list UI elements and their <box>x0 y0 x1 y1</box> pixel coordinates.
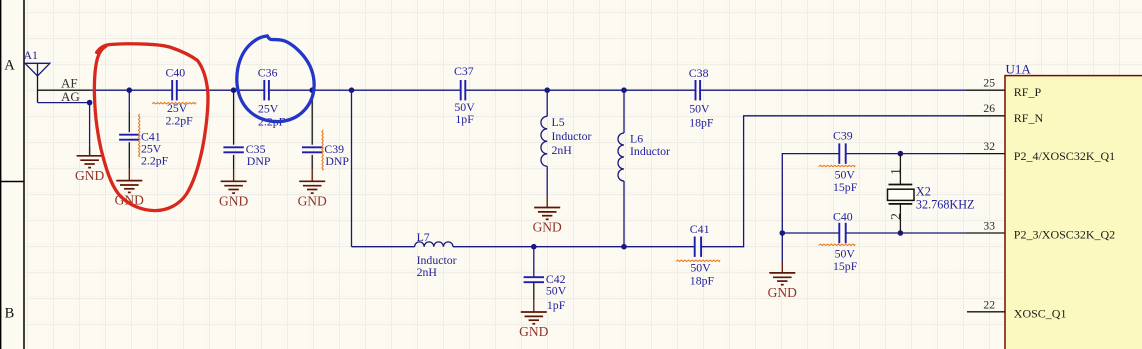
wire C41 lower stem <box>128 142 130 168</box>
capacitor C35 DNP <box>223 147 243 152</box>
svg-text:15pF: 15pF <box>833 180 858 194</box>
wire L5 upper stem <box>546 90 548 116</box>
capacitor C41 2.2pF <box>119 135 139 140</box>
svg-text:1pF: 1pF <box>455 112 474 126</box>
svg-text:X2: X2 <box>916 185 931 199</box>
wire C39 DNP stem <box>311 90 313 145</box>
svg-text:B: B <box>5 306 15 322</box>
capacitor C40 15pF <box>839 223 845 243</box>
svg-text:P2_4/XOSC32K_Q1: P2_4/XOSC32K_Q1 <box>1014 149 1115 163</box>
svg-text:C36: C36 <box>258 66 278 80</box>
svg-text:RF_N: RF_N <box>1014 111 1044 125</box>
svg-text:18pF: 18pF <box>689 116 714 130</box>
wire AG <box>38 102 90 104</box>
svg-text:C40: C40 <box>833 209 853 223</box>
DNP marker zigzag C41 <box>139 114 140 157</box>
crystal X2 <box>888 154 915 233</box>
svg-text:50V: 50V <box>546 284 567 298</box>
svg-text:XOSC_Q1: XOSC_Q1 <box>1014 307 1067 321</box>
ground GND7 <box>781 261 783 273</box>
svg-text:2.2pF: 2.2pF <box>141 153 169 167</box>
svg-text:GND: GND <box>75 168 104 183</box>
svg-text:1: 1 <box>889 168 904 175</box>
svg-text:15pF: 15pF <box>833 259 858 273</box>
junction AG ground tap <box>87 100 93 106</box>
svg-text:C41: C41 <box>690 222 710 236</box>
svg-text:L5: L5 <box>552 115 565 129</box>
junction C35 tap <box>231 87 237 93</box>
capacitor C40 2.2pF <box>172 80 177 100</box>
capacitor C39 15pF <box>839 143 845 163</box>
pin 25 stub <box>966 89 1005 91</box>
junction bottom-link tap <box>349 87 355 93</box>
svg-text:GND: GND <box>768 285 797 300</box>
inductor L6 <box>618 133 624 181</box>
svg-text:C39: C39 <box>833 128 853 142</box>
svg-text:Inductor: Inductor <box>552 129 592 143</box>
svg-text:2: 2 <box>889 213 904 220</box>
junction C39 DNP tap <box>309 87 315 93</box>
junction L5 tap <box>544 87 550 93</box>
ground GND6 <box>533 300 535 312</box>
ground GND3 <box>233 169 235 181</box>
ground GND5 <box>546 196 548 208</box>
svg-text:L7: L7 <box>417 230 430 244</box>
wire L6 lower stem <box>623 181 625 247</box>
svg-text:P2_3/XOSC32K_Q2: P2_3/XOSC32K_Q2 <box>1014 228 1115 242</box>
svg-text:A: A <box>4 58 15 74</box>
antenna A1 <box>25 63 50 76</box>
svg-text:DNP: DNP <box>247 154 271 168</box>
DNP marker zigzag C41 18pF <box>676 260 720 261</box>
wire bottom net left <box>352 246 415 248</box>
pin 22 stub <box>967 311 1005 313</box>
inductor L7 <box>415 242 453 247</box>
junction crystal bottom <box>898 230 904 236</box>
red annotation circle <box>94 44 208 211</box>
wire C35 stem <box>233 90 235 145</box>
wire XOSC Q1 net <box>782 154 966 261</box>
junction C42 tap <box>531 244 537 250</box>
capacitor C41 18pF <box>695 237 701 257</box>
svg-text:C40: C40 <box>166 65 186 79</box>
wire C42 stem <box>533 247 535 278</box>
pin 33 stub <box>966 232 1005 234</box>
junction L6 top tap <box>621 87 627 93</box>
wire RF_N riser <box>701 116 966 247</box>
wire AF black pin segment <box>38 89 91 91</box>
svg-text:U1A: U1A <box>1006 62 1032 77</box>
svg-text:50V: 50V <box>690 261 711 275</box>
wire C35 lower stem <box>233 155 235 169</box>
svg-text:26: 26 <box>983 102 995 115</box>
junction L6 bottom tap <box>621 244 627 250</box>
svg-text:DNP: DNP <box>325 154 349 168</box>
svg-text:GND: GND <box>519 324 548 339</box>
svg-text:33: 33 <box>983 220 995 233</box>
svg-text:1pF: 1pF <box>547 298 566 312</box>
svg-text:25: 25 <box>983 76 995 89</box>
wire vertical link <box>351 90 353 247</box>
svg-text:GND: GND <box>533 220 562 235</box>
svg-text:2nH: 2nH <box>417 265 438 279</box>
svg-text:AG: AG <box>61 89 80 104</box>
DNP marker zigzag C39 15pF <box>819 165 855 166</box>
wire AG ground drop <box>89 103 91 156</box>
antenna pin stem <box>37 76 39 103</box>
pin 32 stub <box>966 153 1005 155</box>
sheet border outer edge <box>0 0 2 349</box>
ground GND2 <box>128 168 130 181</box>
svg-text:GND: GND <box>298 193 327 208</box>
capacitor C42 1pF <box>524 277 544 282</box>
ground GND1 <box>89 147 91 156</box>
junction C40 15pF left tap <box>780 230 786 236</box>
DNP marker zigzag C40 15pF <box>819 244 855 245</box>
svg-text:18pF: 18pF <box>690 274 715 288</box>
pin 26 stub <box>966 115 1005 117</box>
svg-text:2nH: 2nH <box>552 143 573 157</box>
svg-text:32.768KHZ: 32.768KHZ <box>916 198 975 212</box>
svg-text:2.2pF: 2.2pF <box>166 113 194 127</box>
junction C41 tap <box>127 87 133 93</box>
wire AF main run <box>91 89 966 91</box>
wire C39 DNP lower stem <box>311 155 313 169</box>
sheet border row divider <box>0 181 24 183</box>
svg-text:22: 22 <box>983 298 995 311</box>
wire L6 upper stem <box>623 90 625 133</box>
wire L5 lower stem <box>546 166 548 195</box>
wire C41 upper stem <box>128 90 130 112</box>
wire bottom net mid <box>453 246 695 248</box>
DNP marker zigzag C40 <box>152 103 196 104</box>
svg-text:25V: 25V <box>258 101 279 115</box>
svg-text:C37: C37 <box>454 64 474 78</box>
IC body U1A <box>1005 76 1142 349</box>
junction crystal top <box>898 151 904 157</box>
svg-text:C38: C38 <box>689 66 709 80</box>
svg-text:32: 32 <box>983 140 995 153</box>
svg-text:Inductor: Inductor <box>630 144 670 158</box>
capacitor C37 1pF <box>461 80 466 100</box>
inductor L5 <box>541 116 547 166</box>
svg-text:A1: A1 <box>24 48 39 62</box>
capacitor C38 18pF <box>696 80 701 100</box>
capacitor C36 2.2pF <box>264 80 269 100</box>
svg-text:50V: 50V <box>689 101 710 115</box>
wire XOSC Q2 net <box>782 232 966 234</box>
sheet border inner line <box>23 0 25 349</box>
wire C42 lower stem <box>533 282 535 300</box>
ground GND4 <box>311 169 313 181</box>
capacitor C39 DNP <box>302 147 322 152</box>
blue annotation circle <box>237 36 314 122</box>
svg-text:GND: GND <box>219 193 248 208</box>
svg-text:RF_P: RF_P <box>1014 85 1042 99</box>
DNP marker zigzag C39 <box>322 130 323 170</box>
